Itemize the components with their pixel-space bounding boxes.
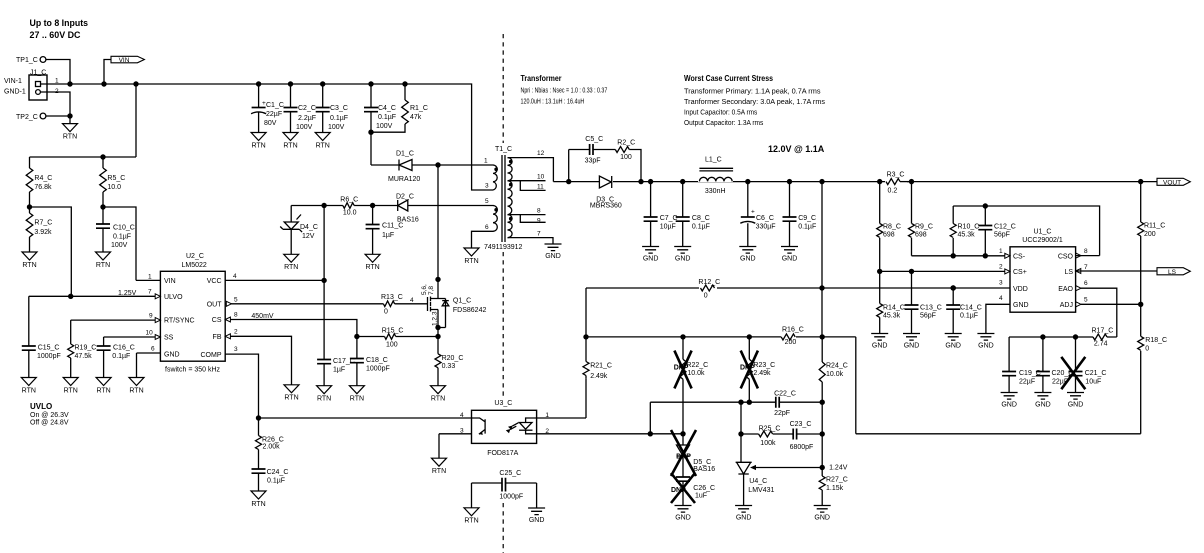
svg-text:MURA120: MURA120 xyxy=(388,176,420,183)
svg-text:45.3k: 45.3k xyxy=(958,232,976,239)
svg-text:Npri : Nbias : Nsec = 1.0 : 0.: Npri : Nbias : Nsec = 1.0 : 0.33 : 0.37 xyxy=(521,88,608,95)
svg-text:C13_C: C13_C xyxy=(920,305,942,312)
svg-text:7,8: 7,8 xyxy=(428,286,435,295)
svg-text:5: 5 xyxy=(485,198,489,205)
svg-text:0.1µF: 0.1µF xyxy=(692,224,710,231)
svg-text:1,2,3: 1,2,3 xyxy=(432,311,439,326)
svg-text:7: 7 xyxy=(537,231,541,238)
svg-text:+: + xyxy=(751,209,755,216)
svg-text:GND: GND xyxy=(1013,302,1029,309)
svg-text:C15_C: C15_C xyxy=(38,345,60,352)
svg-text:8: 8 xyxy=(1084,248,1088,255)
svg-text:7: 7 xyxy=(1084,264,1088,271)
svg-text:12V: 12V xyxy=(302,233,315,240)
svg-text:On @ 26.3V: On @ 26.3V xyxy=(30,412,69,419)
svg-text:R10_C: R10_C xyxy=(958,224,980,231)
svg-text:100V: 100V xyxy=(111,242,128,249)
svg-text:Transformer: Transformer xyxy=(521,74,562,83)
svg-text:47k: 47k xyxy=(410,114,422,121)
svg-text:10.0k: 10.0k xyxy=(826,371,844,378)
svg-text:TP2_C: TP2_C xyxy=(16,114,38,121)
svg-text:C25_C: C25_C xyxy=(499,470,521,477)
svg-text:1: 1 xyxy=(999,248,1003,255)
svg-text:R12_C: R12_C xyxy=(698,279,720,286)
svg-text:3: 3 xyxy=(485,183,489,190)
svg-text:R7_C: R7_C xyxy=(34,220,52,227)
svg-text:VDD: VDD xyxy=(1013,286,1028,293)
svg-text:C9_C: C9_C xyxy=(798,215,816,222)
svg-text:100V: 100V xyxy=(376,123,393,130)
svg-text:0.33: 0.33 xyxy=(442,363,456,370)
svg-text:UCC29002/1: UCC29002/1 xyxy=(1022,237,1063,244)
svg-text:U2_C: U2_C xyxy=(186,253,204,260)
svg-text:10.0k: 10.0k xyxy=(687,370,705,377)
svg-text:100: 100 xyxy=(386,342,398,349)
svg-text:698: 698 xyxy=(915,232,927,239)
svg-text:0: 0 xyxy=(384,309,388,316)
svg-text:UVLO: UVLO xyxy=(30,402,52,411)
svg-text:0.1µF: 0.1µF xyxy=(798,224,816,231)
svg-text:76.8k: 76.8k xyxy=(34,184,52,191)
svg-text:VCC: VCC xyxy=(207,278,222,285)
svg-text:2.49k: 2.49k xyxy=(753,370,771,377)
svg-text:8: 8 xyxy=(537,208,541,215)
svg-text:22µF: 22µF xyxy=(266,111,282,118)
svg-text:C12_C: C12_C xyxy=(994,224,1016,231)
svg-text:R20_C: R20_C xyxy=(442,355,464,362)
svg-text:C26_C: C26_C xyxy=(693,485,715,492)
svg-text:C4_C: C4_C xyxy=(378,105,396,112)
svg-text:6800pF: 6800pF xyxy=(790,444,814,451)
svg-text:L1_C: L1_C xyxy=(705,157,722,164)
svg-text:698: 698 xyxy=(883,232,895,239)
svg-text:BAS16: BAS16 xyxy=(693,466,715,473)
svg-text:D2_C: D2_C xyxy=(396,194,414,201)
svg-text:0.1µF: 0.1µF xyxy=(112,353,130,360)
svg-text:TP1_C: TP1_C xyxy=(16,57,38,64)
svg-text:45.3k: 45.3k xyxy=(883,313,901,320)
svg-text:1uF: 1uF xyxy=(695,492,707,499)
svg-text:Worst Case Current Stress: Worst Case Current Stress xyxy=(684,74,773,83)
svg-text:100V: 100V xyxy=(296,124,313,131)
svg-text:VOUT: VOUT xyxy=(1163,179,1181,186)
svg-text:0.2: 0.2 xyxy=(888,188,898,195)
svg-text:5: 5 xyxy=(1084,297,1088,304)
svg-text:Off @ 24.8V: Off @ 24.8V xyxy=(30,420,69,427)
svg-text:200: 200 xyxy=(785,339,797,346)
svg-text:450mV: 450mV xyxy=(251,313,274,320)
svg-text:0.1µF: 0.1µF xyxy=(960,313,978,320)
svg-text:R21_C: R21_C xyxy=(590,363,612,370)
svg-text:1: 1 xyxy=(484,158,488,165)
svg-text:0.1µF: 0.1µF xyxy=(378,114,396,121)
svg-text:56pF: 56pF xyxy=(920,313,936,320)
svg-text:D1_C: D1_C xyxy=(396,151,414,158)
svg-text:1: 1 xyxy=(148,274,152,281)
svg-text:fswitch = 350 kHz: fswitch = 350 kHz xyxy=(165,367,221,374)
svg-text:ULVO: ULVO xyxy=(164,294,183,301)
svg-text:R4_C: R4_C xyxy=(34,175,52,182)
svg-text:1000pF: 1000pF xyxy=(37,353,61,360)
svg-text:0: 0 xyxy=(1145,346,1149,353)
svg-text:6: 6 xyxy=(1084,280,1088,287)
svg-text:4: 4 xyxy=(410,297,414,304)
svg-text:GND-1: GND-1 xyxy=(4,89,26,96)
svg-text:56pF: 56pF xyxy=(994,232,1010,239)
svg-text:80V: 80V xyxy=(264,120,277,127)
svg-text:LMV431: LMV431 xyxy=(748,487,774,494)
svg-text:LS: LS xyxy=(1168,269,1177,276)
svg-text:R23_C: R23_C xyxy=(753,362,775,369)
svg-text:1.25V: 1.25V xyxy=(118,290,137,297)
svg-text:10: 10 xyxy=(537,174,545,181)
svg-text:R14_C: R14_C xyxy=(883,305,905,312)
svg-text:9: 9 xyxy=(537,217,541,224)
svg-text:9: 9 xyxy=(149,313,153,320)
svg-text:4: 4 xyxy=(233,273,237,280)
svg-text:R17_C: R17_C xyxy=(1092,328,1114,335)
svg-text:R15_C: R15_C xyxy=(382,328,404,335)
svg-text:0.1µF: 0.1µF xyxy=(330,115,348,122)
svg-text:4: 4 xyxy=(999,295,1003,302)
svg-text:U4_C: U4_C xyxy=(749,478,767,485)
svg-text:C11_C: C11_C xyxy=(382,223,403,230)
svg-text:R19_C: R19_C xyxy=(75,345,97,352)
svg-text:1000pF: 1000pF xyxy=(499,494,523,501)
svg-text:6: 6 xyxy=(151,346,155,353)
svg-text:Q1_C: Q1_C xyxy=(453,298,471,305)
svg-text:CS+: CS+ xyxy=(1013,269,1027,276)
svg-text:2.74: 2.74 xyxy=(1094,341,1108,348)
svg-text:FB: FB xyxy=(213,334,222,341)
svg-text:10uF: 10uF xyxy=(1085,379,1101,386)
svg-text:C2_C: C2_C xyxy=(298,105,316,112)
svg-text:R18_C: R18_C xyxy=(1145,337,1167,344)
svg-text:C21_C: C21_C xyxy=(1085,370,1107,377)
svg-text:22pF: 22pF xyxy=(774,410,790,417)
svg-text:EAO: EAO xyxy=(1058,286,1073,293)
svg-text:120.0uH : 13.1uH : 16.4uH: 120.0uH : 13.1uH : 16.4uH xyxy=(521,98,585,105)
svg-text:Input Capacitor: 0.5A rms: Input Capacitor: 0.5A rms xyxy=(684,110,758,117)
svg-text:2.00k: 2.00k xyxy=(263,443,281,450)
svg-text:330nH: 330nH xyxy=(705,188,726,195)
svg-text:R13_C: R13_C xyxy=(381,294,403,301)
svg-text:R6_C: R6_C xyxy=(340,197,358,204)
svg-text:R22_C: R22_C xyxy=(686,362,708,369)
svg-text:1.15k: 1.15k xyxy=(826,485,844,492)
svg-text:R5_C: R5_C xyxy=(107,175,125,182)
svg-text:CSO: CSO xyxy=(1058,254,1074,261)
svg-text:2: 2 xyxy=(999,264,1003,271)
svg-text:6: 6 xyxy=(485,224,489,231)
svg-text:COMP: COMP xyxy=(201,352,222,359)
svg-text:VIN: VIN xyxy=(119,57,130,64)
svg-text:10.0: 10.0 xyxy=(107,184,121,191)
svg-text:47.5k: 47.5k xyxy=(75,353,93,360)
svg-text:8: 8 xyxy=(234,312,238,319)
svg-text:LM5022: LM5022 xyxy=(182,262,207,269)
svg-text:12.0V @ 1.1A: 12.0V @ 1.1A xyxy=(768,144,825,154)
svg-text:R3_C: R3_C xyxy=(887,172,905,179)
svg-text:1.24V: 1.24V xyxy=(829,465,848,472)
svg-text:3: 3 xyxy=(234,346,238,353)
svg-text:T1_C: T1_C xyxy=(495,146,512,153)
svg-text:C16_C: C16_C xyxy=(113,345,135,352)
svg-text:2.2µF: 2.2µF xyxy=(298,115,316,122)
svg-text:12: 12 xyxy=(537,150,545,157)
svg-text:LS: LS xyxy=(1064,269,1073,276)
svg-text:33pF: 33pF xyxy=(585,158,601,165)
svg-text:C7_C: C7_C xyxy=(660,215,678,222)
svg-text:VIN: VIN xyxy=(164,278,176,285)
svg-text:0.1µF: 0.1µF xyxy=(113,234,131,241)
svg-text:3.92k: 3.92k xyxy=(34,229,52,236)
svg-text:100: 100 xyxy=(620,154,632,161)
svg-text:5: 5 xyxy=(234,297,238,304)
svg-text:100k: 100k xyxy=(760,440,776,447)
svg-text:SS: SS xyxy=(164,335,174,342)
svg-text:FDS86242: FDS86242 xyxy=(453,307,487,314)
svg-text:C23_C: C23_C xyxy=(790,421,812,428)
svg-text:1000pF: 1000pF xyxy=(366,366,390,373)
svg-text:GND: GND xyxy=(164,352,180,359)
svg-text:2: 2 xyxy=(234,329,238,336)
svg-text:C10_C: C10_C xyxy=(113,225,135,232)
svg-text:1µF: 1µF xyxy=(333,367,345,374)
svg-text:C18_C: C18_C xyxy=(366,357,388,364)
svg-text:RT/SYNC: RT/SYNC xyxy=(164,318,195,325)
svg-text:C3_C: C3_C xyxy=(330,105,348,112)
svg-text:7: 7 xyxy=(148,289,152,296)
svg-text:2.49k: 2.49k xyxy=(590,373,608,380)
svg-text:R11_C: R11_C xyxy=(1144,223,1165,230)
svg-text:U3_C: U3_C xyxy=(494,400,512,407)
svg-text:U1_C: U1_C xyxy=(1034,229,1052,236)
svg-text:Output Capacitor: 1.3A rms: Output Capacitor: 1.3A rms xyxy=(684,120,764,127)
svg-text:R25_C: R25_C xyxy=(759,426,781,433)
svg-text:27 .. 60V DC: 27 .. 60V DC xyxy=(30,30,81,40)
svg-text:1µF: 1µF xyxy=(382,232,394,239)
svg-text:0.1µF: 0.1µF xyxy=(267,478,285,485)
svg-text:C24_C: C24_C xyxy=(267,469,289,476)
svg-text:VIN-1: VIN-1 xyxy=(4,78,22,85)
svg-text:10.0: 10.0 xyxy=(343,210,357,217)
svg-text:OUT: OUT xyxy=(207,302,223,309)
svg-text:330µF: 330µF xyxy=(756,224,776,231)
svg-text:22µF: 22µF xyxy=(1019,379,1035,386)
svg-text:Up to 8 Inputs: Up to 8 Inputs xyxy=(30,18,89,28)
svg-text:C14_C: C14_C xyxy=(960,305,982,312)
svg-text:FOD817A: FOD817A xyxy=(487,450,518,457)
svg-text:MBRS360: MBRS360 xyxy=(590,203,622,210)
svg-text:R1_C: R1_C xyxy=(410,105,428,112)
svg-text:R8_C: R8_C xyxy=(883,224,901,231)
svg-text:R27_C: R27_C xyxy=(826,477,848,484)
svg-text:3: 3 xyxy=(999,280,1003,287)
svg-text:R2_C: R2_C xyxy=(617,140,635,147)
svg-text:7491193912: 7491193912 xyxy=(484,244,523,251)
svg-text:C5_C: C5_C xyxy=(585,136,603,143)
svg-text:10µF: 10µF xyxy=(660,224,676,231)
svg-text:CS: CS xyxy=(212,317,222,324)
svg-text:D5_C: D5_C xyxy=(693,459,711,466)
svg-text:C6_C: C6_C xyxy=(756,215,774,222)
svg-text:11: 11 xyxy=(537,184,544,191)
svg-text:R24_C: R24_C xyxy=(826,363,848,370)
svg-text:C8_C: C8_C xyxy=(692,215,710,222)
svg-text:10: 10 xyxy=(146,330,154,337)
svg-text:ADJ: ADJ xyxy=(1060,302,1073,309)
svg-text:CS-: CS- xyxy=(1013,254,1026,261)
svg-text:C1_C: C1_C xyxy=(266,102,284,109)
svg-text:5,6,: 5,6, xyxy=(421,284,428,295)
svg-text:Tranformer Secondary: 3.0A pea: Tranformer Secondary: 3.0A peak, 1.7A rm… xyxy=(684,99,826,106)
svg-text:0: 0 xyxy=(704,293,708,300)
svg-text:Transformer Primary: 1.1A peak: Transformer Primary: 1.1A peak, 0.7A rms xyxy=(684,88,821,95)
svg-text:D4_C: D4_C xyxy=(300,224,318,231)
svg-text:100V: 100V xyxy=(328,124,345,131)
svg-text:R16_C: R16_C xyxy=(782,327,804,334)
svg-text:C22_C: C22_C xyxy=(774,391,796,398)
svg-text:200: 200 xyxy=(1144,231,1156,238)
svg-text:R9_C: R9_C xyxy=(915,224,933,231)
